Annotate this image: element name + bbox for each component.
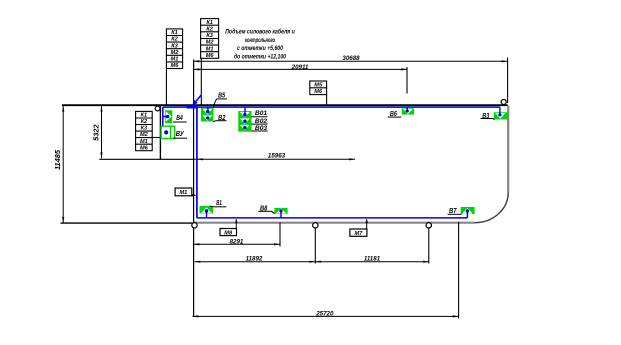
svg-text:11485: 11485: [53, 149, 62, 170]
svg-text:В3: В3: [482, 111, 490, 120]
svg-text:ВУ: ВУ: [176, 129, 185, 138]
svg-text:М2: М2: [171, 50, 180, 56]
svg-text:К1: К1: [141, 113, 148, 119]
svg-text:М6: М6: [171, 63, 180, 69]
svg-text:М5: М5: [314, 82, 323, 88]
svg-text:25720: 25720: [315, 310, 334, 317]
svg-text:К3: К3: [141, 126, 148, 132]
svg-text:М1: М1: [171, 57, 179, 63]
svg-text:К2: К2: [206, 26, 213, 32]
svg-text:В4: В4: [176, 113, 183, 122]
svg-text:М7: М7: [355, 231, 364, 237]
svg-text:В2: В2: [218, 113, 226, 122]
svg-text:с отметки +5,600: с отметки +5,600: [237, 45, 283, 52]
svg-text:М6: М6: [206, 53, 215, 59]
svg-text:8291: 8291: [230, 238, 244, 245]
svg-text:М2: М2: [140, 132, 149, 138]
svg-text:до отметки +12,100: до отметки +12,100: [234, 53, 286, 61]
svg-text:15963: 15963: [268, 152, 286, 159]
svg-text:В5: В5: [218, 91, 226, 100]
svg-text:В6: В6: [390, 109, 398, 118]
svg-text:К2: К2: [171, 37, 178, 43]
svg-text:М6: М6: [314, 89, 323, 95]
svg-text:М6: М6: [140, 145, 149, 151]
svg-text:К2: К2: [141, 119, 148, 125]
svg-text:К3: К3: [171, 43, 178, 49]
svg-text:К3: К3: [206, 33, 213, 39]
svg-text:М1: М1: [180, 190, 188, 196]
svg-text:М1: М1: [140, 139, 148, 145]
svg-text:В1: В1: [216, 198, 222, 207]
svg-text:30688: 30688: [342, 55, 360, 62]
svg-text:К1: К1: [206, 20, 213, 26]
svg-text:В7: В7: [449, 206, 457, 215]
svg-text:К1: К1: [171, 30, 178, 36]
svg-text:М1: М1: [206, 46, 214, 52]
svg-text:В03: В03: [255, 125, 268, 132]
svg-text:М2: М2: [206, 40, 215, 46]
svg-text:11892: 11892: [246, 255, 263, 262]
svg-text:В02: В02: [255, 118, 268, 125]
svg-text:5322: 5322: [92, 123, 101, 140]
svg-text:Подъем силового кабеля и: Подъем силового кабеля и: [225, 27, 295, 35]
svg-text:М8: М8: [224, 231, 233, 237]
svg-text:20911: 20911: [291, 64, 309, 71]
svg-text:В8: В8: [260, 203, 268, 212]
svg-text:В01: В01: [255, 110, 268, 117]
svg-text:контрольного: контрольного: [245, 37, 275, 44]
svg-text:11181: 11181: [364, 255, 381, 262]
